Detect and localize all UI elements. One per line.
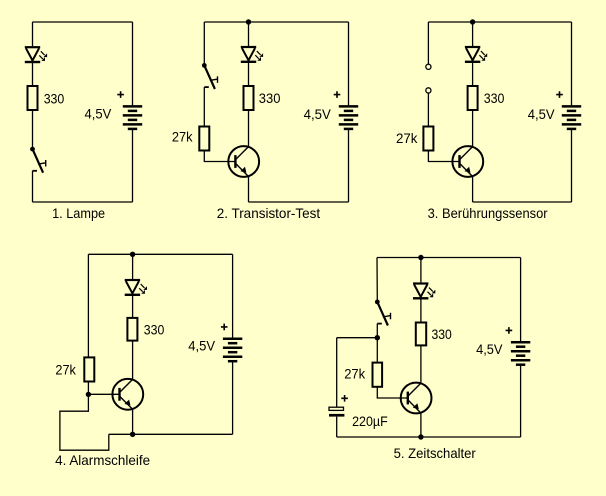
- resistor R7 330: [127, 318, 137, 341]
- svg-text:27k: 27k: [344, 366, 366, 382]
- wire C5 switch to node: [376, 324, 378, 338]
- wire C2 LED branch upper: [248, 22, 250, 46]
- wire C3 left upper: [427, 22, 429, 64]
- node C4 top junction: [130, 252, 135, 257]
- svg-text:4,5V: 4,5V: [476, 341, 503, 357]
- svg-text:330: 330: [259, 90, 281, 106]
- touch contact upper: [426, 64, 431, 69]
- node C5 emitter junction: [418, 434, 423, 439]
- node C5 cap junction: [375, 335, 380, 340]
- wire C5 top: [377, 257, 521, 259]
- svg-text:4,5V: 4,5V: [85, 106, 112, 122]
- wire C4 emitter: [132, 409, 134, 434]
- transistor Q3: [112, 379, 143, 410]
- wire C2 right upper: [348, 22, 350, 106]
- plus sign B3: [556, 91, 563, 98]
- wire C5 collector: [420, 345, 422, 383]
- resistor R8 27k: [373, 363, 383, 387]
- wire C2 emitter: [248, 176, 250, 202]
- svg-text:330: 330: [44, 90, 65, 106]
- wire C2 base: [204, 151, 235, 162]
- wire C5 cap branch vertical: [336, 338, 338, 408]
- wire C5 bottom: [337, 436, 521, 438]
- svg-text:27k: 27k: [172, 129, 194, 145]
- wire C1 bottom: [33, 201, 133, 203]
- svg-text:27k: 27k: [396, 130, 418, 146]
- wire C5 right lower: [520, 366, 522, 437]
- node C5 top junction: [418, 255, 423, 260]
- plus sign B4: [221, 324, 228, 331]
- wire C4 right upper: [232, 254, 234, 338]
- alarm loop wire: [60, 394, 109, 450]
- wire C1 R1 to switch: [32, 110, 34, 147]
- battery B2 4.5V: [339, 106, 358, 128]
- LED D2: [241, 47, 263, 62]
- battery B3 4.5V: [562, 106, 581, 128]
- wire C2 LED to R3: [248, 63, 250, 86]
- svg-text:4,5V: 4,5V: [188, 338, 215, 354]
- battery B4 4.5V: [223, 339, 242, 362]
- resistor R2 27k: [199, 127, 209, 151]
- wire C5 node to R8: [376, 338, 378, 363]
- capacitor C1 220uF bottom plate: [329, 414, 344, 417]
- wire C4 collector: [132, 341, 134, 380]
- wire C4 LED to R7: [132, 296, 134, 318]
- node C3 top junction: [470, 19, 475, 24]
- wire C3 contact to R4: [427, 93, 429, 126]
- wire C3 LED branch upper: [472, 22, 474, 46]
- svg-text:4,5V: 4,5V: [528, 106, 555, 122]
- wire C5 LED branch upper: [420, 258, 422, 283]
- transistor Q1: [228, 146, 259, 177]
- wire C1 left upper: [32, 22, 34, 46]
- transistor Q2: [452, 146, 483, 177]
- pushbutton switch S2: [202, 63, 218, 89]
- wire C1 right upper: [132, 22, 134, 106]
- wire C4 R6 to base node: [87, 382, 89, 395]
- wire C3 base: [428, 151, 459, 162]
- wire C3 bottom: [473, 201, 572, 203]
- node C2 top junction: [246, 19, 251, 24]
- battery B1 4.5V: [123, 106, 142, 128]
- wire C4 LED branch upper: [132, 254, 134, 279]
- wire C5 cap branch horizontal: [337, 337, 378, 339]
- pushbutton switch S3: [375, 300, 391, 326]
- wire C4 base: [88, 393, 119, 395]
- touch contact lower: [426, 88, 431, 93]
- wire C2 bottom: [249, 201, 349, 203]
- resistor R4 27k: [423, 127, 433, 151]
- resistor R3 330: [244, 86, 254, 110]
- svg-text:27k: 27k: [55, 362, 76, 378]
- wire C3 right lower: [571, 130, 573, 202]
- svg-text:4,5V: 4,5V: [304, 106, 332, 122]
- node C4 base junction: [86, 392, 91, 397]
- wire C5 right upper: [520, 258, 522, 343]
- wire C3 LED to R5: [472, 63, 474, 86]
- plus sign B5: [506, 327, 513, 334]
- wire C4 top: [88, 253, 232, 255]
- svg-text:4. Alarmschleife: 4. Alarmschleife: [55, 452, 150, 468]
- wire C3 emitter: [472, 176, 474, 202]
- wire C1 right lower: [132, 130, 134, 202]
- wire C2 top: [204, 21, 348, 23]
- resistor R6 27k: [84, 357, 94, 381]
- wire C2 right lower: [348, 130, 350, 202]
- plus sign C1 capacitor: [341, 395, 348, 402]
- svg-text:2. Transistor-Test: 2. Transistor-Test: [217, 205, 321, 221]
- wire C4 bottom: [109, 433, 233, 435]
- transistor Q4: [401, 383, 432, 414]
- LED D1 (Lampe): [25, 47, 47, 62]
- wire C3 collector: [472, 110, 474, 147]
- plus sign B1: [117, 91, 124, 98]
- wire C1 LED to R1: [32, 63, 34, 86]
- wire C2 switch to R2: [203, 87, 205, 126]
- wire C4 left: [87, 254, 89, 357]
- svg-text:5. Zeitschalter: 5. Zeitschalter: [394, 445, 477, 461]
- LED D3: [465, 47, 487, 62]
- svg-text:3. Berührungssensor: 3. Berührungssensor: [428, 205, 548, 221]
- wire C1 top: [33, 21, 133, 23]
- resistor R5 330: [468, 86, 478, 110]
- resistor R9 330: [416, 323, 426, 346]
- plus sign B2: [334, 91, 341, 98]
- svg-text:1. Lampe: 1. Lampe: [52, 205, 105, 221]
- LED D5: [413, 284, 435, 299]
- wire C2 left upper: [203, 22, 205, 64]
- wire C5 emitter: [420, 413, 422, 437]
- capacitor C1 220uF top plate: [329, 407, 344, 410]
- wire C1 switch to bottom: [32, 171, 34, 202]
- wire C3 right upper: [571, 22, 573, 106]
- wire C5 cap to bottom: [336, 417, 338, 437]
- wire C5 left upper: [376, 258, 378, 301]
- svg-text:220µF: 220µF: [352, 413, 388, 429]
- wire C5 base: [377, 387, 407, 398]
- wire C3 top: [428, 21, 571, 23]
- wire C4 right lower: [232, 362, 234, 434]
- wire C2 collector: [248, 110, 250, 147]
- battery B5 4.5V: [511, 342, 530, 365]
- LED D4: [125, 280, 147, 295]
- pushbutton switch S1: [30, 147, 46, 173]
- svg-text:330: 330: [432, 326, 452, 342]
- svg-text:330: 330: [484, 90, 505, 106]
- node C4 emitter junction: [130, 432, 135, 437]
- wire C5 LED to R9: [420, 299, 422, 322]
- svg-text:330: 330: [144, 322, 165, 338]
- resistor R1 330: [28, 86, 38, 110]
